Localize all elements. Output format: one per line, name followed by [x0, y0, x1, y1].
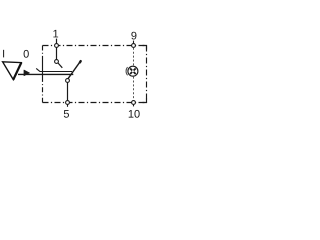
- contact circle at 5 (blade pivot): [66, 79, 70, 83]
- switch housing (dash-dot enclosure): [43, 46, 147, 103]
- wire: stub below terminal 10: [133, 104, 135, 106]
- wire: stub above terminal 1: [56, 39, 58, 44]
- label 1: [53, 30, 58, 38]
- wire: terminal 1 to contact circle: [56, 47, 58, 60]
- label 0 (off position): [24, 50, 29, 58]
- actuator rocker triangle: [3, 62, 22, 80]
- terminal 1: [55, 44, 59, 48]
- actuator triangle thick right side: [13, 63, 21, 80]
- label I (on position): [3, 50, 4, 58]
- label 10: [129, 110, 140, 118]
- enclosure corner joints: [143, 46, 147, 103]
- wire: stub above terminal 9: [133, 41, 135, 44]
- label 9: [131, 32, 136, 40]
- lamp left ghost arc: [126, 67, 128, 75]
- terminal 5: [66, 101, 70, 105]
- wire: stub below terminal 5: [67, 104, 69, 106]
- linkage arrowhead: [24, 70, 30, 76]
- enclosure left edge (dash-dot, long dash at linkage crossing): [42, 46, 44, 103]
- indicator lamp: [128, 66, 138, 76]
- mechanical linkage lower line: [18, 73, 73, 75]
- terminal 10: [132, 101, 136, 105]
- mechanical linkage upper line: [40, 71, 72, 73]
- linkage barb tick: [36, 68, 40, 71]
- fixed contact diagonal at 1: [58, 63, 62, 68]
- switch blade tip: [79, 61, 82, 62]
- label 5: [64, 110, 69, 118]
- wire: contact circle to terminal 5: [67, 82, 69, 100]
- wire: lamp to terminal 10 (dashed): [133, 77, 135, 100]
- terminal 9: [132, 44, 136, 48]
- wire: terminal 9 to lamp (dashed): [133, 48, 135, 66]
- contact circle at 1: [55, 60, 59, 64]
- switch blade: [68, 61, 80, 78]
